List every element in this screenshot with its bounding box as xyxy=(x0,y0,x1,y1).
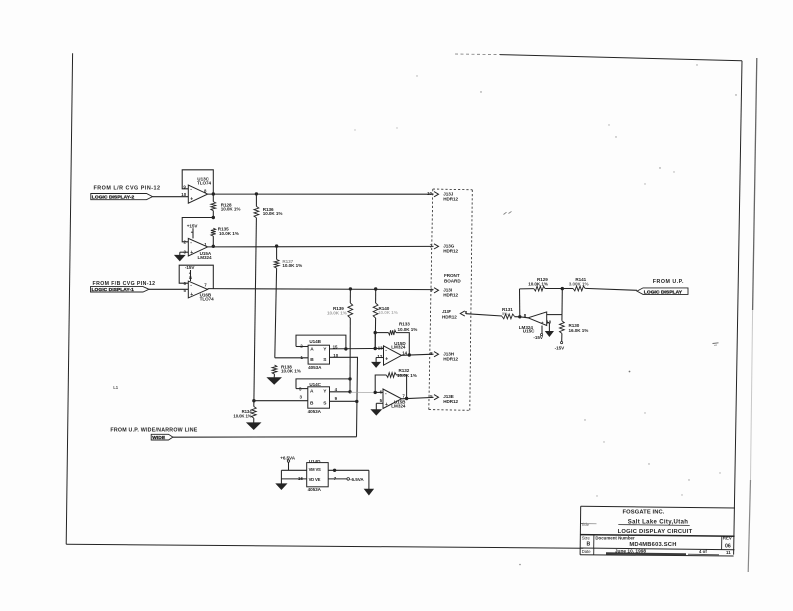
svg-text:10: 10 xyxy=(181,192,186,197)
svg-text:LOGIC DISPLAY CIRCUIT: LOGIC DISPLAY CIRCUIT xyxy=(618,529,693,535)
ground xyxy=(372,358,384,368)
svg-text:WIDE: WIDE xyxy=(152,435,166,441)
svg-text:5%: 5% xyxy=(502,311,508,316)
svg-text:+15V: +15V xyxy=(187,223,199,228)
svg-text:+: + xyxy=(190,196,193,202)
wire xyxy=(275,268,277,358)
svg-text:LM324: LM324 xyxy=(198,255,213,260)
svg-text:06: 06 xyxy=(725,543,731,549)
svg-text:VD VE: VD VE xyxy=(309,477,321,482)
tag LOGIC DISPLAY-1 xyxy=(91,287,150,293)
resistor R134 xyxy=(233,401,256,423)
svg-text:10.0K 1%: 10.0K 1% xyxy=(219,231,239,236)
power -6.5VA xyxy=(328,476,364,482)
svg-text:3.00K 1%: 3.00K 1% xyxy=(569,282,589,287)
svg-text:B: B xyxy=(310,357,314,363)
svg-text:4053A: 4053A xyxy=(308,487,322,492)
ground xyxy=(267,378,281,385)
svg-text:L1: L1 xyxy=(113,385,119,390)
svg-text:10.0K 1%: 10.0K 1% xyxy=(327,310,347,315)
wire xyxy=(374,318,376,349)
svg-text:HDR12: HDR12 xyxy=(443,399,458,404)
wire xyxy=(296,335,348,350)
wire xyxy=(149,288,188,290)
svg-text:FOSGATE INC.: FOSGATE INC. xyxy=(623,509,665,515)
svg-text:LM324: LM324 xyxy=(391,345,406,350)
wire xyxy=(254,218,257,401)
svg-text:U14B: U14B xyxy=(309,339,321,344)
svg-text:11: 11 xyxy=(726,550,731,555)
net label FROM L/R CVG PIN-12 xyxy=(94,186,161,192)
svg-text:A: A xyxy=(310,388,314,394)
svg-text:LM324: LM324 xyxy=(391,404,406,409)
svg-text:-15V: -15V xyxy=(555,345,565,350)
svg-text:10.0K 1%: 10.0K 1% xyxy=(281,369,301,374)
ground xyxy=(276,484,286,490)
svg-text:-15V: -15V xyxy=(185,265,195,270)
svg-text:TLO74: TLO74 xyxy=(200,297,215,302)
wire xyxy=(330,357,359,437)
ground xyxy=(175,252,189,261)
connector pin J13G xyxy=(430,243,459,253)
wire xyxy=(296,377,352,388)
net label FROM U.P. WIDE/NARROW LINE xyxy=(110,427,197,433)
wire xyxy=(330,347,384,350)
resistor R139 xyxy=(327,289,353,318)
svg-text:11: 11 xyxy=(189,276,193,280)
svg-text:A: A xyxy=(310,346,314,352)
svg-text:10: 10 xyxy=(427,191,432,196)
resistor R129 xyxy=(528,277,548,291)
wire xyxy=(466,314,502,316)
wire xyxy=(182,170,213,194)
svg-text:4: 4 xyxy=(189,272,191,276)
tag LOGIC DISPLAY xyxy=(637,288,688,296)
connector pin J13I xyxy=(430,288,458,298)
svg-text:Document Number: Document Number xyxy=(595,535,635,540)
wire xyxy=(402,397,434,400)
op-amp U15C xyxy=(519,310,552,340)
analog switch U14D xyxy=(298,459,328,492)
svg-text:10.0K 1%: 10.0K 1% xyxy=(221,206,241,211)
svg-text:12: 12 xyxy=(377,354,382,359)
svg-text:10.0K 1%: 10.0K 1% xyxy=(378,310,398,315)
svg-text:4053A: 4053A xyxy=(308,365,322,370)
svg-text:10.0K 1%: 10.0K 1% xyxy=(528,281,548,286)
op-amp U15A xyxy=(184,238,212,259)
op-amp U15B xyxy=(380,389,407,409)
analog switch U14C xyxy=(299,382,338,414)
svg-text:4 of: 4 of xyxy=(699,549,707,554)
svg-text:MD4MB603.SCH: MD4MB603.SCH xyxy=(629,542,676,548)
wire xyxy=(208,244,434,248)
svg-text:10.0K 1%: 10.0K 1% xyxy=(397,373,417,378)
svg-text:-15V: -15V xyxy=(533,335,543,340)
wire xyxy=(330,400,357,402)
connector J13 front board xyxy=(429,189,473,410)
svg-text:16.0K 1%: 16.0K 1% xyxy=(569,328,589,333)
svg-text:+: + xyxy=(541,320,544,325)
power -15V xyxy=(555,345,565,350)
resistor R135 xyxy=(211,227,239,247)
power -15V xyxy=(185,265,195,281)
tag LOGIC DISPLAY-2 xyxy=(91,194,153,201)
svg-text:LOGIC DISPLAY: LOGIC DISPLAY xyxy=(644,289,683,295)
power +15V xyxy=(187,223,199,238)
svg-text:FROM U.P.: FROM U.P. xyxy=(653,279,684,285)
wire xyxy=(330,390,376,393)
resistor R128 xyxy=(211,194,241,218)
resistor R137 xyxy=(274,246,302,268)
resistor R131 xyxy=(502,307,522,319)
svg-text:FROM U.P. WIDE/NARROW LINE: FROM U.P. WIDE/NARROW LINE xyxy=(110,427,197,433)
net label FROM U.P. xyxy=(653,279,684,285)
svg-text:Date: Date xyxy=(582,549,592,554)
connector pin J13F xyxy=(442,309,468,319)
wire xyxy=(328,469,369,489)
svg-text:+: + xyxy=(385,357,388,363)
ground xyxy=(365,489,374,495)
resistor R141 xyxy=(569,277,589,291)
svg-text:REV: REV xyxy=(723,535,732,540)
svg-text:TLO74: TLO74 xyxy=(197,181,212,186)
svg-text:HDR12: HDR12 xyxy=(443,293,458,298)
resistor R132 xyxy=(374,368,417,399)
resistor R140 xyxy=(373,289,398,318)
ground xyxy=(247,423,261,430)
tag WIDE xyxy=(151,434,173,441)
svg-text:B: B xyxy=(310,400,314,406)
svg-text:Size: Size xyxy=(582,535,591,540)
svg-text:FROM F/B CVG PIN-12: FROM F/B CVG PIN-12 xyxy=(93,281,156,287)
svg-text:-6.5VA: -6.5VA xyxy=(350,477,364,482)
ground xyxy=(371,403,383,415)
op-amp U15D xyxy=(377,341,407,365)
svg-text:10.0K 1%: 10.0K 1% xyxy=(398,327,418,332)
svg-text:U14D: U14D xyxy=(309,459,321,464)
svg-text:LOGIC DISPLAY-1: LOGIC DISPLAY-1 xyxy=(92,287,135,293)
wire xyxy=(173,436,357,438)
analog switch U14B xyxy=(300,339,338,370)
resistor R133 xyxy=(374,322,418,355)
svg-text:HDR12: HDR12 xyxy=(443,356,458,361)
svg-text:+: + xyxy=(385,402,388,408)
svg-text:BOARD: BOARD xyxy=(444,278,461,283)
svg-text:+: + xyxy=(190,250,193,256)
svg-text:HDR12: HDR12 xyxy=(443,196,458,201)
wire xyxy=(281,470,306,483)
title block xyxy=(580,506,735,556)
svg-text:4053A: 4053A xyxy=(308,409,322,414)
resistor R130 xyxy=(560,315,589,344)
connector pin J13J xyxy=(427,191,458,202)
svg-text:B: B xyxy=(587,541,591,547)
op-amp U16B xyxy=(184,281,215,302)
wire xyxy=(208,192,434,196)
connector pin J13H xyxy=(430,351,458,362)
wire xyxy=(520,287,638,317)
net label FROM F/B CVG PIN-12 xyxy=(93,281,156,287)
svg-text:10.0K 1%: 10.0K 1% xyxy=(233,413,251,418)
resistor R138 xyxy=(272,365,301,378)
svg-text:+: + xyxy=(190,292,193,298)
wire xyxy=(208,287,434,291)
connector pin J13E xyxy=(430,394,458,404)
wire xyxy=(275,357,308,359)
svg-text:10.0K 1%: 10.0K 1% xyxy=(282,263,302,268)
svg-text:HDR12: HDR12 xyxy=(443,249,458,254)
wire xyxy=(252,399,308,402)
resistor R136 xyxy=(254,194,282,218)
svg-text:HDR12: HDR12 xyxy=(442,314,457,319)
svg-text:U14C: U14C xyxy=(309,382,321,387)
op-amp U13C xyxy=(181,177,211,204)
wire xyxy=(349,318,351,392)
wire xyxy=(153,196,189,198)
power +6.5VA xyxy=(280,456,296,471)
svg-text:FROM L/R CVG PIN-12: FROM L/R CVG PIN-12 xyxy=(94,186,161,192)
ground xyxy=(546,323,554,337)
svg-text:Title: Title xyxy=(581,522,590,527)
svg-text:LOGIC DISPLAY-2: LOGIC DISPLAY-2 xyxy=(92,195,135,201)
wire xyxy=(179,265,213,288)
wire xyxy=(182,216,215,242)
svg-text:10.0K 1%: 10.0K 1% xyxy=(263,211,283,216)
wire xyxy=(375,349,383,393)
svg-text:VM VS: VM VS xyxy=(309,467,321,472)
svg-text:U15C: U15C xyxy=(523,328,535,333)
wire xyxy=(520,317,528,318)
wire xyxy=(402,353,434,356)
